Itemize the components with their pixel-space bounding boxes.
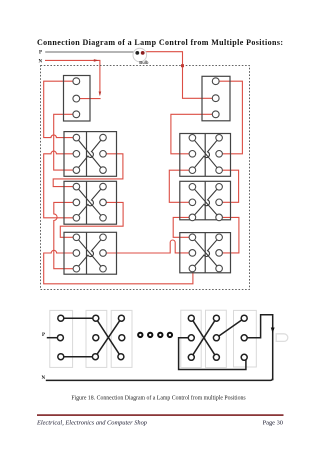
- terminals SW-L4: [73, 234, 106, 272]
- wire bulb to SW-R1 (red): [146, 52, 212, 99]
- svg-text:N: N: [42, 376, 46, 381]
- svg-text:P: P: [42, 333, 45, 338]
- wire X cross box4-box5: [191, 318, 216, 357]
- wire W15 SW-R3 lb to SW-R4 lt: [173, 217, 189, 237]
- wire W10 SW-R1 c1 to SW-R2 rm: [219, 81, 242, 154]
- wire W5 SW-L2 rm to SW-L3 lt: [53, 154, 123, 187]
- wire P stub: [47, 337, 58, 339]
- terminals SW-R4: [189, 234, 222, 272]
- svg-text:N: N: [39, 59, 43, 64]
- wire top strap box1-box2: [61, 317, 96, 319]
- wire W8 SW-L4 lm to bottom run to SW-R4 lb: [44, 250, 193, 283]
- wire bottom strap box1-box2: [61, 356, 96, 358]
- wire N feed to SW-L1 common: [45, 60, 100, 94]
- wire W14 SW-R2 rb to SW-R3 rm: [223, 170, 239, 202]
- wire box5 mid to box6 top: [216, 318, 244, 338]
- continuation dots: [138, 333, 172, 337]
- wire N line: [46, 378, 273, 380]
- lamp bulb symbol: [133, 48, 147, 62]
- dashed enclosure border: [41, 66, 250, 290]
- wire box6 mid to lamp and N: [247, 315, 273, 381]
- junction dot on border: [181, 64, 184, 67]
- svg-text:P: P: [39, 51, 42, 56]
- svg-text:Connection Diagram of a Lamp C: Connection Diagram of a Lamp Control fro…: [37, 38, 283, 47]
- svg-text:Page 30: Page 30: [263, 420, 283, 427]
- switch SW-L2 intermediate: [64, 132, 117, 177]
- lamp symbol (faint): [276, 334, 288, 342]
- switch SW-R3 intermediate: [180, 181, 231, 220]
- svg-text:Figure 18. Connection Diagram: Figure 18. Connection Diagram of a Lamp …: [71, 395, 246, 402]
- terminals SW-L2: [73, 134, 106, 173]
- wire X cross box2-box3: [96, 318, 121, 357]
- switch body outlines (faint): [50, 310, 256, 367]
- terminals SW-R3: [189, 184, 222, 221]
- wire W7 SW-L3 rm to SW-L4 lt: [60, 202, 123, 237]
- wire SW-L1 c2 to N junction: [80, 98, 101, 100]
- wire W6 SW-L3 lm to SW-L4 lb: [54, 202, 73, 268]
- terminals SW-L3: [73, 183, 106, 221]
- wire W16 SW-R3 rb to SW-R4 rm: [222, 217, 239, 253]
- svg-text:Bulb: Bulb: [139, 60, 149, 65]
- wire W1 SW-L1 c1 to SW-L2 lt: [44, 81, 73, 137]
- wire W9 SW-L4 rm to SW-R4 lm (long link with jog): [107, 240, 190, 253]
- footer rule: [37, 414, 284, 416]
- wire W13 SW-R2 lb to SW-R3 lm: [169, 170, 189, 202]
- switch SW-R2 intermediate: [180, 134, 231, 177]
- terminals diagram2: [57, 315, 247, 360]
- terminals SW-L1: [73, 78, 80, 118]
- switch SW-R4 intermediate: [180, 233, 231, 273]
- switch SW-L1 two-way: [64, 76, 91, 122]
- wire W4 SW-L2 lm to SW-L3 lb: [44, 151, 73, 218]
- wire loop box6 bottom to box4 mid: [179, 338, 246, 370]
- switch SW-L3 intermediate: [64, 181, 117, 224]
- arrow on lamp wire: [271, 328, 275, 334]
- wire W12 SW-R1 c3 to SW-R2 lm: [171, 114, 212, 154]
- wire P line: [45, 51, 133, 53]
- terminals SW-R2: [189, 135, 222, 174]
- wire W3 SW-L1 c3 to SW-L2 lb: [54, 114, 73, 170]
- switch SW-L4 intermediate: [64, 232, 117, 274]
- switch SW-R1 two-way: [202, 76, 230, 121]
- terminals SW-R1: [212, 78, 219, 118]
- svg-text:Electrical, Electronics and Co: Electrical, Electronics and Computer Sho…: [36, 420, 147, 427]
